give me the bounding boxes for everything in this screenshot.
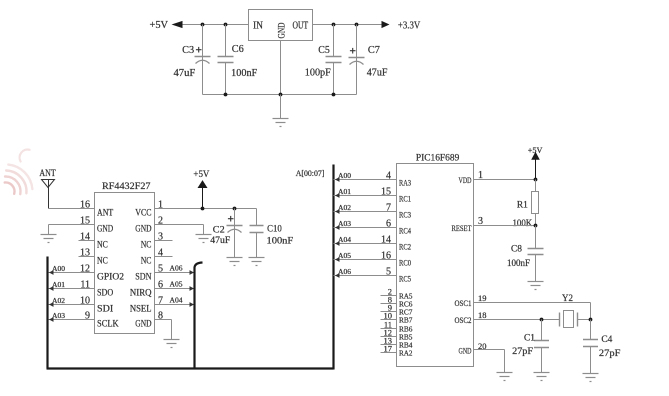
svg-text:GND: GND xyxy=(459,346,472,356)
ground (C4) xyxy=(583,374,599,382)
bus (left vertical) xyxy=(46,257,48,369)
svg-text:SDN: SDN xyxy=(135,272,152,282)
svg-text:NC: NC xyxy=(97,256,108,266)
svg-text:IN: IN xyxy=(253,21,263,32)
svg-text:C1: C1 xyxy=(524,334,535,344)
bus (right vertical) xyxy=(332,165,334,370)
power flag +3.3V xyxy=(382,21,421,32)
power flag +5V (PIC) xyxy=(528,146,543,182)
svg-text:A06: A06 xyxy=(170,266,184,273)
svg-text:+5V: +5V xyxy=(150,20,169,31)
resistor R1 100K xyxy=(513,180,539,229)
wire A03 bus entry to RF pin 9 xyxy=(48,313,95,322)
power flag +5V (RF) xyxy=(193,170,209,211)
wire VDD pin1 xyxy=(474,179,536,181)
svg-text:A01: A01 xyxy=(52,282,65,289)
svg-text:GND: GND xyxy=(135,224,152,234)
wire OSC2 pin18 xyxy=(474,319,560,321)
wire OSC1 pin19 xyxy=(474,303,591,320)
ground (C1) xyxy=(534,373,550,381)
wire ANT to pin 16 xyxy=(49,208,95,210)
svg-text:17: 17 xyxy=(384,344,393,354)
capacitor C3 47uF (polarized) xyxy=(174,23,211,95)
svg-text:27pF: 27pF xyxy=(512,347,533,357)
watermark red arcs xyxy=(5,150,33,195)
svg-text:14: 14 xyxy=(381,234,391,245)
svg-text:15: 15 xyxy=(381,186,391,197)
svg-text:4: 4 xyxy=(386,170,391,181)
svg-text:A02: A02 xyxy=(52,298,66,305)
svg-text:OSC2: OSC2 xyxy=(455,315,472,325)
svg-text:RF4432F27: RF4432F27 xyxy=(102,182,151,192)
svg-text:Y2: Y2 xyxy=(562,294,573,304)
svg-text:100nF: 100nF xyxy=(507,259,530,269)
svg-text:A02: A02 xyxy=(338,205,352,212)
svg-text:C10: C10 xyxy=(267,224,282,234)
svg-text:SCLK: SCLK xyxy=(97,319,119,329)
svg-text:47uF: 47uF xyxy=(367,68,388,79)
wire GND pin20 xyxy=(474,350,505,373)
ground (regulator rail) xyxy=(273,95,289,127)
svg-text:GPIO2: GPIO2 xyxy=(97,272,124,282)
PIC microcontroller U PIC16F689 box xyxy=(397,153,474,366)
capacitor C7 47uF (polarized) xyxy=(349,23,388,95)
svg-text:ANT: ANT xyxy=(97,208,114,218)
capacitor C6 100nF xyxy=(218,23,258,95)
svg-text:C4: C4 xyxy=(601,335,612,345)
svg-text:NC: NC xyxy=(97,240,108,250)
wire pin 8 GND xyxy=(155,320,172,340)
wire pin 2 GND right xyxy=(155,225,204,235)
svg-text:47uF: 47uF xyxy=(174,68,196,79)
stub pin 13 NC xyxy=(79,256,95,258)
wire A02 bus entry to RF pin 10 xyxy=(48,298,95,307)
svg-text:6: 6 xyxy=(386,218,391,229)
capacitor C2 47uF (polarized) xyxy=(210,207,242,258)
svg-text:SDO: SDO xyxy=(97,288,114,298)
svg-text:NIRQ: NIRQ xyxy=(130,288,152,298)
wire pin 15 GND left xyxy=(49,224,95,226)
ground (RF pin 8) xyxy=(164,340,180,348)
stub pin 3 NC xyxy=(155,240,173,242)
svg-text:VCC: VCC xyxy=(135,208,151,218)
bus (bottom horizontal) xyxy=(47,367,334,369)
svg-text:RC0: RC0 xyxy=(399,258,411,268)
svg-text:C2: C2 xyxy=(213,225,225,235)
PIC left pin names xyxy=(399,178,412,284)
svg-text:GND: GND xyxy=(135,319,152,329)
wire RESET pin3 xyxy=(474,224,538,228)
svg-text:PIC16F689: PIC16F689 xyxy=(416,153,460,163)
svg-text:+3.3V: +3.3V xyxy=(398,21,421,32)
svg-text:C8: C8 xyxy=(511,244,522,254)
svg-text:GND: GND xyxy=(97,224,114,234)
stub pin 4 NC xyxy=(155,256,173,258)
capacitor C5 100pF xyxy=(305,23,342,95)
wire A06 RF pin 5 to bus xyxy=(155,266,195,275)
ground (RF pin 2) xyxy=(196,235,212,243)
capacitor C10 100nF xyxy=(250,209,294,258)
wire A01 bus entry to RF pin 11 xyxy=(48,282,95,291)
svg-text:100nF: 100nF xyxy=(231,68,257,79)
bus (middle vertical) xyxy=(195,263,203,369)
wire VCC pin1 to C10 xyxy=(155,208,257,210)
ground (RF pin 15) xyxy=(41,225,57,243)
svg-text:RC1: RC1 xyxy=(399,194,411,204)
svg-text:C7: C7 xyxy=(368,45,380,56)
capacitor C1 27pF xyxy=(512,320,549,373)
svg-text:19: 19 xyxy=(478,293,487,303)
wire top ground rail xyxy=(203,94,357,96)
svg-text:NC: NC xyxy=(141,256,152,266)
wire A05 RF pin 6 to bus xyxy=(155,282,195,291)
svg-text:+5V: +5V xyxy=(193,170,209,180)
svg-text:RC3: RC3 xyxy=(399,210,411,220)
svg-text:C6: C6 xyxy=(232,44,244,55)
wire A00 bus entry to RF pin 12 xyxy=(48,266,95,275)
bus label A[00:07] xyxy=(296,169,325,178)
svg-text:A04: A04 xyxy=(338,237,352,244)
wire regulator GND down xyxy=(280,41,282,95)
capacitor C4 27pF xyxy=(583,320,620,374)
voltage regulator U (IN/GND/OUT) xyxy=(249,10,313,41)
svg-text:C3: C3 xyxy=(182,45,194,56)
RF module pin names and numbers xyxy=(80,199,163,328)
RF module U RF4432F27 box xyxy=(95,182,155,334)
svg-text:RESET: RESET xyxy=(452,223,473,233)
PIC stub pins RA5/RC6/RC7/RB7/RB6/RB5/RB4/RA2 xyxy=(381,287,413,358)
PIC right pin names and numbers xyxy=(452,170,487,356)
svg-text:5: 5 xyxy=(386,266,391,277)
wire A04 RF pin 7 to bus xyxy=(155,298,195,307)
power flag +5V (top left) xyxy=(150,20,183,31)
svg-text:SDI: SDI xyxy=(97,304,113,314)
svg-text:A01: A01 xyxy=(338,189,351,196)
stub pin 14 NC xyxy=(79,240,95,242)
svg-text:OSC1: OSC1 xyxy=(455,298,472,308)
ground (C10) xyxy=(249,258,265,266)
svg-text:A00: A00 xyxy=(338,173,352,180)
wires A00-A06 bus to PIC xyxy=(334,170,397,278)
wire regulator OUT to +3.3V xyxy=(313,24,382,26)
capacitor C8 100nF xyxy=(507,226,544,282)
svg-text:RB7: RB7 xyxy=(399,316,413,325)
svg-text:R1: R1 xyxy=(517,201,528,211)
svg-text:A06: A06 xyxy=(338,269,352,276)
svg-text:A[00:07]: A[00:07] xyxy=(296,169,325,178)
svg-text:OUT: OUT xyxy=(293,21,309,32)
svg-text:A00: A00 xyxy=(52,266,66,273)
svg-text:RC5: RC5 xyxy=(399,274,411,284)
crystal Y2 xyxy=(540,294,593,328)
ground (C2) xyxy=(227,258,243,266)
svg-text:100nF: 100nF xyxy=(267,237,294,247)
svg-text:100pF: 100pF xyxy=(305,67,331,78)
svg-text:16: 16 xyxy=(381,250,391,261)
svg-text:18: 18 xyxy=(478,310,487,320)
svg-text:A03: A03 xyxy=(338,221,352,228)
svg-text:RC2: RC2 xyxy=(399,242,411,252)
ground (C8) xyxy=(528,282,544,290)
svg-text:NC: NC xyxy=(141,240,152,250)
svg-text:27pF: 27pF xyxy=(599,349,621,359)
ground (PIC pin 20) xyxy=(497,373,513,381)
svg-text:A05: A05 xyxy=(170,282,184,289)
wire +5V to regulator IN xyxy=(183,24,249,26)
svg-text:A04: A04 xyxy=(170,298,184,305)
svg-text:GND: GND xyxy=(278,22,288,38)
svg-text:C5: C5 xyxy=(318,45,330,56)
svg-text:47uF: 47uF xyxy=(210,236,230,246)
svg-text:100K: 100K xyxy=(513,219,533,229)
svg-text:RA2: RA2 xyxy=(399,349,413,358)
svg-text:RA3: RA3 xyxy=(399,178,411,188)
svg-text:ANT: ANT xyxy=(39,169,55,179)
junction dots on ground rail xyxy=(224,93,336,97)
svg-text:A05: A05 xyxy=(338,253,352,260)
svg-text:7: 7 xyxy=(386,202,391,213)
svg-text:NSEL: NSEL xyxy=(130,304,152,314)
svg-text:A03: A03 xyxy=(52,313,66,320)
antenna ANT xyxy=(39,169,55,208)
svg-text:VDD: VDD xyxy=(459,175,472,185)
svg-text:RC4: RC4 xyxy=(399,226,412,236)
